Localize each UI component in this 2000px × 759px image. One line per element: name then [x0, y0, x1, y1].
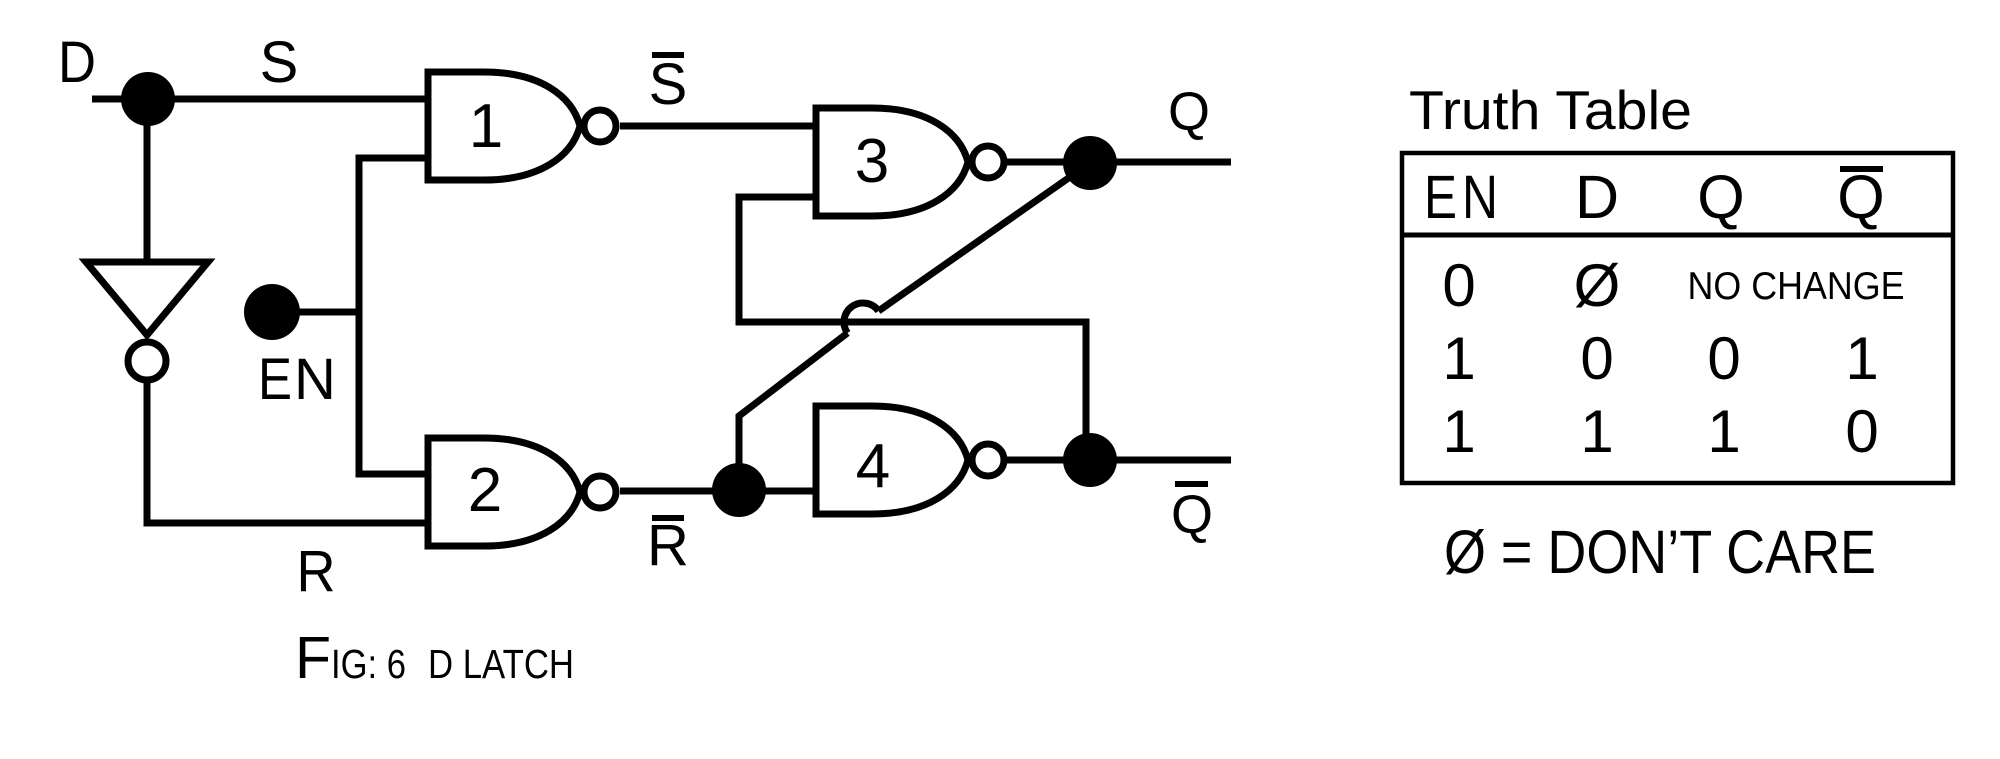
svg-text:Q: Q	[1171, 485, 1213, 545]
svg-text:Ø: Ø	[1574, 252, 1621, 319]
svg-text:2: 2	[468, 456, 502, 525]
svg-text:R: R	[647, 513, 689, 578]
svg-text:4: 4	[856, 432, 890, 501]
svg-text:E: E	[258, 347, 292, 412]
svg-text:R: R	[297, 539, 336, 604]
svg-text:IG: 6: IG: 6	[331, 641, 406, 687]
svg-text:F: F	[295, 625, 331, 691]
svg-text:1: 1	[469, 92, 503, 161]
svg-text:Q: Q	[1837, 163, 1884, 231]
svg-text:S: S	[649, 52, 688, 117]
svg-text:1: 1	[1442, 398, 1475, 465]
svg-text:0: 0	[1845, 398, 1878, 465]
svg-text:1: 1	[1442, 325, 1475, 392]
svg-text:N: N	[1462, 163, 1498, 231]
svg-text:D: D	[58, 30, 96, 95]
svg-text:Q: Q	[1697, 163, 1744, 231]
svg-text:0: 0	[1442, 252, 1475, 319]
svg-text:N: N	[294, 347, 336, 412]
svg-text:Q: Q	[1168, 82, 1210, 142]
svg-text:3: 3	[855, 127, 889, 196]
svg-text:0: 0	[1580, 325, 1613, 392]
svg-text:NO CHANGE: NO CHANGE	[1688, 265, 1905, 308]
svg-text:1: 1	[1707, 398, 1740, 465]
svg-text:E: E	[1424, 163, 1457, 231]
svg-text:Ø = DON’T CARE: Ø = DON’T CARE	[1444, 518, 1876, 586]
svg-text:Truth Table: Truth Table	[1409, 79, 1692, 141]
svg-text:D: D	[1575, 163, 1619, 231]
svg-text:D LATCH: D LATCH	[428, 641, 574, 687]
svg-text:1: 1	[1580, 398, 1613, 465]
svg-text:0: 0	[1707, 325, 1740, 392]
svg-text:1: 1	[1845, 325, 1878, 392]
svg-text:S: S	[260, 30, 299, 95]
